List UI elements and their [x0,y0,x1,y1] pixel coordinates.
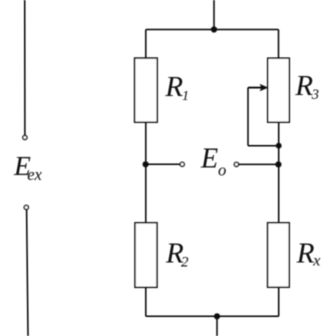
svg-text:E: E [200,144,218,175]
svg-text:R: R [296,238,315,270]
svg-text:R: R [294,70,313,102]
svg-text:3: 3 [311,87,319,103]
svg-text:R: R [164,71,183,103]
svg-text:o: o [218,161,226,180]
svg-text:x: x [312,253,320,270]
svg-text:2: 2 [181,254,189,270]
svg-text:ex: ex [27,165,42,184]
svg-text:1: 1 [182,89,189,104]
